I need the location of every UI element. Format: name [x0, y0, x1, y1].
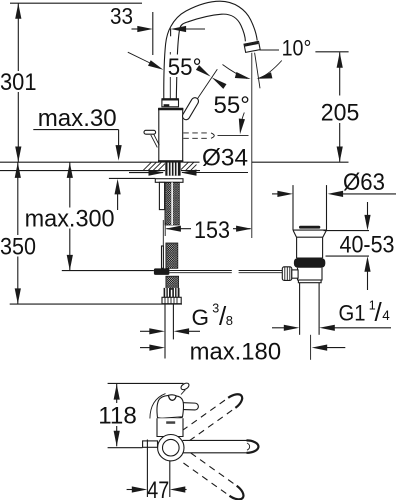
dimension 40-53 arrows	[367, 202, 369, 216]
pop-up tab top view	[143, 441, 158, 447]
washer	[155, 179, 183, 183]
drain O-ring	[294, 258, 325, 268]
faucet body bottom band	[158, 160, 183, 162]
svg-text:/: /	[375, 297, 383, 327]
connector lower nut	[162, 297, 181, 303]
svg-text:55°: 55°	[214, 92, 250, 119]
svg-text:max.300: max.300	[25, 206, 115, 233]
dimension 47 extension lines	[146, 440, 148, 498]
svg-text:205: 205	[321, 100, 360, 127]
10deg right arc with arrow	[260, 61, 282, 79]
spout inner edge	[176, 14, 245, 100]
dimension 301 line	[17, 3, 19, 71]
bottom view: center extension line	[108, 447, 143, 449]
dimension 205 line	[339, 52, 341, 95]
10deg left arc with arrow	[223, 65, 248, 79]
top view escutcheon	[157, 418, 183, 436]
counter hatching left	[143, 162, 165, 170]
svg-text:8: 8	[226, 313, 233, 328]
55deg first text	[166, 55, 204, 78]
svg-text:301: 301	[0, 69, 37, 96]
supply hose middle	[166, 243, 178, 268]
counter bottom line	[0, 170, 165, 172]
dia34 text	[201, 146, 250, 168]
dia34 arrows	[129, 172, 163, 174]
G3/8 dimension arrows	[140, 330, 151, 332]
drain mid body	[297, 237, 323, 258]
faucet collar	[162, 99, 179, 107]
counter thickness up arrow	[115, 179, 121, 195]
drain taper	[293, 230, 327, 237]
pop-up horizontal rod	[169, 270, 231, 272]
pop-up pivot block	[154, 268, 170, 275]
drain centerline	[310, 335, 312, 360]
dimension 350 extension line	[10, 303, 182, 305]
svg-text:Ø63: Ø63	[343, 169, 385, 196]
pop-up rod upper	[159, 182, 164, 209]
dia63 arrows	[272, 193, 279, 195]
supply hose lower	[166, 276, 179, 289]
drain pipe upper	[292, 185, 294, 230]
drain plug ridge	[299, 226, 320, 229]
spout solid position	[183, 440, 259, 452]
handle axis line	[186, 69, 218, 116]
top view base circle	[158, 435, 184, 461]
aerator	[244, 41, 260, 52]
spout middle line	[169, 52, 171, 99]
drain side socket nut	[282, 267, 292, 281]
dimension 118 line	[116, 384, 118, 403]
svg-text:40-53: 40-53	[340, 232, 395, 259]
pop-up rod lower	[162, 246, 164, 268]
washer top extension line	[109, 177, 155, 179]
outlet 10deg tilted line	[255, 53, 260, 89]
spout outer edge	[164, 1, 257, 100]
dimension 33 arrows	[132, 28, 141, 30]
svg-text:33: 33	[110, 3, 133, 29]
drain tailpipe	[299, 283, 301, 335]
10deg leader line	[260, 49, 280, 51]
svg-text:153: 153	[194, 217, 230, 244]
svg-text:Ø34: Ø34	[202, 144, 248, 171]
handle axis bowtie arrows	[196, 65, 211, 77]
svg-text:max.180: max.180	[190, 339, 282, 366]
svg-text:118: 118	[98, 403, 137, 430]
G3/8 supply pipes	[164, 304, 166, 359]
lever tip ellipse	[180, 382, 190, 391]
svg-text:G: G	[192, 305, 210, 330]
faucet handle lever	[181, 96, 200, 121]
handle head notch	[168, 395, 176, 401]
55deg second down arrow	[240, 113, 244, 129]
svg-text:55°: 55°	[168, 54, 202, 81]
dimension 350 line	[17, 162, 19, 235]
dimension 153 arrows	[165, 226, 181, 232]
top view handle head	[157, 395, 183, 418]
G1 1/4 dimension arrows	[272, 327, 285, 329]
55deg upper-left arrow	[128, 52, 150, 63]
drain bottom ridge	[298, 280, 321, 283]
hose connector nuts	[164, 288, 171, 297]
faucet body	[159, 108, 183, 161]
supply hose upper	[165, 182, 179, 225]
counter hatching right	[181, 162, 197, 170]
top view lever grip	[177, 402, 199, 410]
hidden centerline dashes	[183, 132, 209, 134]
outlet vertical reference line	[251, 53, 253, 238]
svg-text:4: 4	[382, 308, 390, 323]
grohe label	[166, 421, 175, 424]
svg-text:G1: G1	[339, 301, 366, 326]
max180 dimension arrows	[140, 347, 151, 349]
pop-up knob	[144, 130, 156, 134]
top view body joint curve	[158, 418, 183, 419]
mounting shank	[165, 162, 180, 176]
spout swivel position up	[182, 391, 245, 441]
drain lower body	[298, 268, 323, 281]
dimension 40-53 extension lines	[324, 230, 370, 232]
svg-text:350: 350	[0, 234, 36, 261]
spout swivel position down	[183, 453, 246, 500]
max300 extension line	[62, 270, 154, 272]
dimension 33 extension lines	[152, 12, 154, 55]
dimension max300 line	[69, 162, 71, 207]
top reference line	[10, 2, 142, 4]
svg-text:10°: 10°	[282, 35, 312, 60]
dimension 205 extension line	[315, 51, 348, 53]
svg-text:47: 47	[147, 477, 169, 500]
dimension 47 arrows	[127, 489, 134, 491]
svg-text:max.30: max.30	[38, 105, 117, 132]
dimension 153 extension stubs	[162, 220, 164, 247]
bottom view: 118 top extension line	[108, 382, 184, 384]
drain socket stub	[292, 270, 298, 278]
top view handle swing arc	[150, 394, 166, 419]
counter top line	[0, 161, 159, 163]
lever raised position line	[181, 390, 185, 395]
